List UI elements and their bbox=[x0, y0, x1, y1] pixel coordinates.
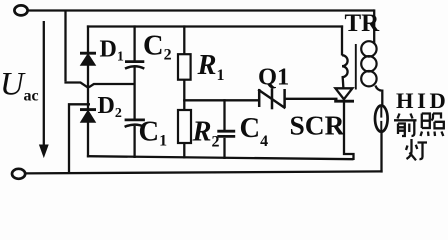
terminal bottom-left bbox=[12, 169, 25, 179]
svg-text:Q1: Q1 bbox=[258, 64, 289, 91]
svg-text:C1: C1 bbox=[139, 117, 168, 150]
capacitor C2 bbox=[125, 62, 144, 69]
wire R1 bottom to node bbox=[183, 80, 185, 102]
terminal top-left bbox=[14, 5, 27, 15]
wire C4 top stub bbox=[223, 99, 225, 131]
wire AC bottom feed bbox=[69, 104, 90, 172]
diode D2 bbox=[80, 110, 96, 122]
transformer TR secondary winding bbox=[361, 41, 376, 86]
HID lamp bbox=[375, 106, 388, 132]
resistor R2 bbox=[178, 110, 191, 143]
wire top rail bbox=[28, 9, 375, 11]
thyristor SCR bbox=[334, 76, 354, 160]
wire midpoint to capacitor column bbox=[89, 84, 135, 87]
svg-text:U: U bbox=[0, 67, 26, 103]
wire R2 bottom stub bbox=[183, 143, 185, 159]
wire Q1 to SCR gate bbox=[285, 98, 338, 100]
arrow Uac bbox=[40, 21, 48, 157]
wire TR primary top bbox=[341, 25, 343, 55]
wire D2 anode to bottom rail bbox=[87, 121, 89, 157]
capacitor C4 bbox=[217, 131, 235, 136]
wire TR secondary to lamp bbox=[375, 86, 382, 107]
svg-text:C4: C4 bbox=[240, 113, 269, 150]
resistor R1 bbox=[178, 54, 191, 79]
trigger diode Q1 bbox=[258, 88, 285, 109]
wire funnel junction to diode midpoint bbox=[64, 83, 87, 88]
wire node line to Q1 bbox=[183, 99, 259, 101]
wire D1-D2 midpoint column bbox=[87, 64, 89, 110]
wire C2 to C1 bbox=[133, 67, 135, 120]
label zhao (照) bbox=[421, 114, 444, 137]
capacitor C1 bbox=[125, 120, 145, 127]
wire bottom rail bbox=[25, 171, 383, 173]
label deng (灯) bbox=[406, 139, 427, 160]
wire AC top feed bbox=[64, 11, 66, 82]
diode D1 bbox=[80, 53, 96, 65]
svg-text:D2: D2 bbox=[98, 93, 122, 121]
wire C1 to bottom rail bbox=[133, 126, 135, 158]
label Uac bbox=[0, 67, 39, 105]
wire R2 top stub bbox=[183, 100, 185, 110]
wire D1 cathode to rail bbox=[87, 25, 89, 53]
wire C2 top stub bbox=[133, 25, 135, 61]
wire inner top rail bbox=[87, 25, 343, 27]
svg-text:HID: HID bbox=[396, 88, 448, 113]
transformer TR primary winding bbox=[342, 55, 348, 77]
wire TR secondary top bbox=[373, 9, 375, 44]
svg-text:R1: R1 bbox=[197, 50, 225, 84]
wire inner bottom rail bbox=[87, 156, 354, 159]
svg-text:D1: D1 bbox=[100, 37, 124, 65]
svg-text:C2: C2 bbox=[143, 31, 172, 64]
wire lamp to bottom bbox=[380, 131, 382, 173]
svg-text:TR: TR bbox=[345, 10, 381, 37]
wire R1 top stub bbox=[183, 25, 185, 54]
svg-text:SCR: SCR bbox=[290, 110, 346, 141]
svg-text:R2: R2 bbox=[192, 117, 220, 151]
transformer TR core bbox=[355, 44, 357, 90]
wire C4 bottom stub bbox=[223, 138, 225, 159]
label qian (前) bbox=[394, 114, 417, 137]
svg-text:ac: ac bbox=[24, 88, 39, 105]
